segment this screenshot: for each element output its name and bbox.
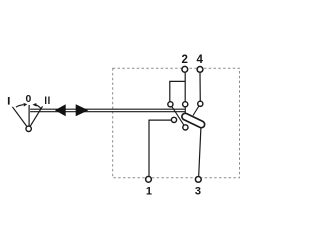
contact A (168, 102, 173, 107)
wire branch to contact A (170, 81, 185, 104)
contact C (198, 101, 203, 106)
enclosure dashed box (113, 68, 240, 178)
terminal 3 (195, 177, 201, 183)
svg-text:2: 2 (181, 54, 187, 66)
svg-text:0: 0 (26, 94, 32, 105)
arrow I to 0 (16, 105, 24, 108)
label position I (8, 97, 10, 105)
detent triangle right (76, 104, 89, 116)
wire terminal4 down to contact C (199, 73, 201, 104)
lever capsule (181, 112, 206, 129)
selector position line 0 (28, 105, 30, 129)
wire terminal2 down to contact B (184, 73, 186, 105)
pivot circle (26, 126, 31, 131)
svg-text:3: 3 (195, 186, 201, 198)
contact E (183, 125, 188, 130)
svg-text:4: 4 (196, 54, 203, 66)
svg-text:1: 1 (146, 186, 152, 198)
selector position line I (12, 107, 28, 129)
contact B (183, 102, 188, 107)
arrow II to 0 (36, 105, 41, 109)
wire terminal1 up to contact D (149, 120, 174, 176)
wire lever to terminal3 (199, 128, 201, 176)
movable arm from contact C to lever (193, 104, 200, 116)
label position II (45, 97, 46, 105)
stub contact B to lever (184, 104, 186, 113)
mechanical double link line (30, 109, 185, 112)
terminal 1 (146, 176, 152, 182)
movable arm contact A to contact E (170, 104, 185, 127)
terminal 4 (197, 67, 203, 73)
selector position line II (29, 106, 43, 129)
terminal 2 (182, 66, 188, 72)
contact D (171, 117, 176, 122)
detent triangle left (55, 104, 66, 116)
